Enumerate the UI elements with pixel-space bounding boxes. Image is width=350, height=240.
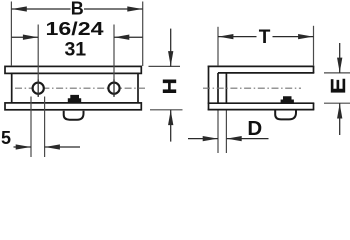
center line (front view) xyxy=(15,87,145,89)
bottom tab (side view) xyxy=(275,111,296,120)
D dimension line, outside arrows xyxy=(188,138,218,140)
housing body xyxy=(12,73,138,103)
arrow at right hole line xyxy=(114,35,129,40)
arrow at left hole line xyxy=(23,35,38,40)
svg-text:B: B xyxy=(71,0,84,18)
side view outer wall xyxy=(208,66,210,111)
top flange bottom edge xyxy=(218,72,314,74)
inner wall line 1 xyxy=(217,73,219,103)
svg-text:T: T xyxy=(259,27,271,48)
5 dimension line xyxy=(14,146,32,148)
5 arrow left xyxy=(16,144,31,149)
16/24-31 dimension line, outside arrows xyxy=(11,36,38,38)
drill centre mark right hole xyxy=(113,80,115,97)
extension line through right hole xyxy=(113,25,115,98)
housing bottom rail xyxy=(5,103,141,110)
5 dimension extension lines at hole edges xyxy=(30,97,32,158)
5 arrow right xyxy=(45,144,60,149)
side view bottom edge xyxy=(208,109,315,111)
drill centre mark left hole xyxy=(37,80,39,97)
B arrow right xyxy=(127,6,142,11)
svg-text:5: 5 xyxy=(1,128,11,148)
B dimension line xyxy=(11,8,70,10)
B dimension extension line left xyxy=(10,2,12,67)
extension line through left hole xyxy=(37,25,39,98)
H dimension extension lines xyxy=(149,65,181,67)
B dimension extension line right xyxy=(142,2,144,67)
svg-text:31: 31 xyxy=(64,39,86,61)
T dimension extension line left xyxy=(217,27,219,66)
svg-text:H: H xyxy=(160,78,180,94)
inner wall line 2 xyxy=(225,73,227,103)
bottom flange right end xyxy=(313,103,315,109)
B arrow left xyxy=(12,6,27,11)
hole right xyxy=(108,83,119,94)
bottom flange top edge xyxy=(208,102,315,104)
bottom tab (front view) xyxy=(64,111,84,120)
T dimension extension line right xyxy=(313,26,315,66)
svg-text:16/24: 16/24 xyxy=(46,19,104,39)
svg-text:E: E xyxy=(327,78,350,94)
clamping screw knob (side view) xyxy=(281,96,294,103)
center line (side view) xyxy=(203,87,301,89)
top flange right end xyxy=(313,66,315,73)
svg-text:D: D xyxy=(247,117,262,140)
E dimension extension lines xyxy=(324,72,350,74)
E dimension line, outside arrows xyxy=(339,43,341,73)
T dimension line, inside arrows xyxy=(218,36,257,38)
H dimension line, outside arrows xyxy=(170,29,172,67)
clamping screw knob (front view) xyxy=(68,95,81,103)
housing top rail xyxy=(5,66,141,73)
side view top edge xyxy=(208,65,315,67)
D dimension extension lines xyxy=(217,111,219,154)
hole left xyxy=(33,83,44,94)
